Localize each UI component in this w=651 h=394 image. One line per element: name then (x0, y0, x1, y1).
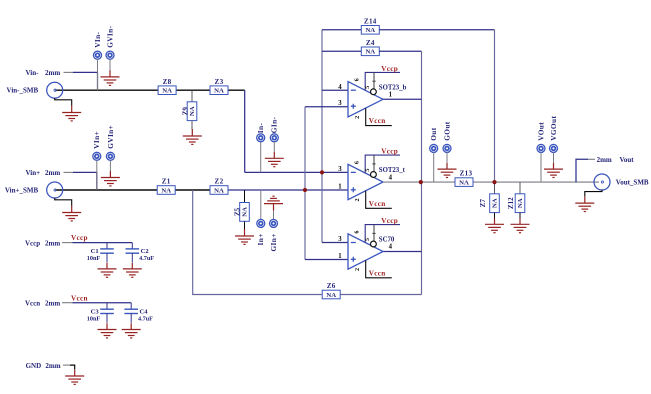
svg-text:2mm: 2mm (45, 169, 60, 177)
resistor Z4 (361, 39, 379, 56)
svg-text:VIn-: VIn- (93, 31, 102, 47)
wire GVIn- stem (109, 59, 111, 70)
wire node minus to op2 pin3 (245, 171, 348, 173)
svg-text:Vccn: Vccn (369, 200, 386, 208)
ground of Vin-_SMB (62, 106, 81, 121)
svg-text:Vout_SMB: Vout_SMB (616, 178, 649, 186)
wire Vin- 2mm stub (73, 72, 98, 90)
svg-text:5: 5 (364, 85, 371, 89)
wire op3 pin1 (305, 259, 348, 261)
resistor Z9 (181, 102, 197, 121)
ground of Z9 (183, 129, 202, 144)
wire Z4 drop bus (421, 51, 423, 294)
svg-text:3: 3 (338, 100, 342, 107)
wire C4 bottom stem (130, 314, 132, 323)
wire Z4 left (322, 50, 362, 52)
wire inverting bus x322 (321, 30, 323, 243)
wire Vin- 2mm lead (64, 71, 74, 73)
svg-text:2: 2 (354, 268, 361, 272)
svg-text:Vin+_SMB: Vin+_SMB (5, 186, 39, 194)
svg-text:Z3: Z3 (215, 78, 224, 86)
test point VGOut (550, 144, 558, 152)
resistor Z1 (157, 178, 175, 195)
svg-text:NA: NA (326, 292, 336, 299)
svg-text:Z2: Z2 (215, 178, 224, 186)
svg-text:GOut: GOut (442, 121, 451, 141)
connector Vin+_SMB (47, 182, 63, 198)
capacitor C1 (100, 249, 114, 253)
svg-text:Z6: Z6 (327, 282, 336, 290)
wire Z3 out (228, 89, 245, 91)
svg-text:Z12: Z12 (507, 197, 515, 209)
wire Z14 right (379, 29, 495, 31)
wire Z6 left leg (193, 190, 322, 295)
wire op1 pin4 (322, 89, 348, 91)
wire Vin+ 2mm stub (73, 172, 97, 190)
svg-text:C4: C4 (140, 308, 149, 315)
wire Out stem (433, 152, 435, 182)
wire C1 bottom stem (106, 253, 108, 262)
svg-text:Vccn: Vccn (71, 294, 88, 302)
svg-text:3: 3 (338, 166, 342, 173)
junction (419, 180, 423, 184)
svg-text:Z1: Z1 (162, 178, 171, 186)
wire op3 pin3 (322, 242, 348, 244)
svg-text:3: 3 (338, 236, 342, 243)
svg-text:2mm: 2mm (597, 156, 612, 164)
wire In+ stem (260, 190, 262, 219)
ground of C2 (123, 263, 142, 278)
wire C3 bottom stem (106, 314, 108, 323)
svg-text:GIn-: GIn- (270, 116, 279, 133)
ground of C4 (122, 323, 141, 338)
wire Vccp lead (62, 242, 73, 244)
test point VOut (537, 144, 545, 152)
wire GIn+ stem (273, 211, 275, 220)
svg-text:2mm: 2mm (45, 362, 60, 370)
svg-text:1: 1 (389, 92, 393, 99)
wire op1 pin3 (305, 106, 348, 108)
svg-text:VGOut: VGOut (549, 116, 558, 141)
svg-text:C2: C2 (141, 248, 150, 255)
svg-text:GND: GND (26, 362, 42, 370)
wire op2 output to Z13 (383, 181, 455, 183)
svg-text:NA: NA (162, 88, 172, 95)
svg-text:Vout: Vout (620, 156, 635, 164)
svg-text:Vccp: Vccp (381, 148, 398, 156)
resistor Z3 (210, 78, 228, 95)
ground of Z5 (235, 229, 254, 244)
wire VIn- stem (97, 59, 99, 90)
wire VIn+ stem (96, 160, 98, 190)
wire Z1 to Z2 (174, 189, 210, 191)
wire Z9 bottom stem (191, 121, 193, 130)
svg-text:Vccp: Vccp (25, 239, 40, 247)
resistor Z12 (507, 194, 525, 213)
wire Z5 bottom stem (244, 222, 246, 230)
svg-text:10nF: 10nF (87, 316, 101, 323)
svg-text:Vccp: Vccp (381, 65, 398, 73)
wire op3 output (383, 251, 422, 253)
capacitor C3 (100, 309, 114, 313)
svg-text:NA: NA (214, 187, 224, 194)
test point GVIn- (106, 51, 114, 59)
svg-text:Z13: Z13 (460, 170, 473, 178)
op-amp SOT23_t (348, 155, 400, 208)
wire GIn- stem (273, 142, 275, 152)
wire Z5 top stem (244, 190, 246, 203)
svg-text:Vccp: Vccp (381, 217, 398, 225)
svg-text:Vin-_SMB: Vin-_SMB (7, 87, 39, 95)
svg-text:GVIn+: GVIn+ (106, 125, 115, 149)
wire C3 top stem (106, 303, 108, 310)
wire Vout 2mm stub (576, 159, 588, 182)
resistor Z2 (210, 178, 228, 195)
svg-text:C1: C1 (91, 248, 99, 255)
ground of GIn- (265, 152, 284, 167)
wire C2 bottom stem (131, 253, 133, 262)
svg-text:Out: Out (429, 127, 438, 141)
test point GVIn+ (106, 152, 114, 160)
wire SMB1 ground stub (55, 98, 72, 106)
svg-text:2: 2 (354, 115, 361, 119)
svg-text:Vccp: Vccp (71, 234, 88, 242)
svg-text:10nF: 10nF (87, 255, 101, 262)
svg-text:NA: NA (365, 27, 375, 34)
junction (303, 188, 307, 192)
svg-text:NA: NA (161, 187, 171, 194)
svg-text:Z5: Z5 (234, 207, 242, 216)
ground of Vin+_SMB (62, 206, 81, 221)
svg-text:2mm: 2mm (45, 299, 60, 307)
test point GIn+ (270, 219, 278, 227)
ground of Vout_SMB (575, 197, 594, 212)
capacitor C4 (124, 309, 138, 313)
wire Z9 top stem (191, 90, 193, 102)
wire Z14 left (322, 29, 362, 31)
wire noninverting bus x305 (304, 107, 306, 260)
svg-text:Z8: Z8 (163, 78, 172, 86)
svg-text:5: 5 (364, 168, 371, 172)
svg-text:NA: NA (459, 179, 469, 186)
svg-text:1: 1 (338, 253, 342, 260)
wire Z7 ground stem (494, 213, 496, 219)
svg-text:SC70: SC70 (379, 237, 395, 244)
resistor Z8 (158, 78, 176, 95)
junction (492, 180, 496, 184)
svg-text:C3: C3 (91, 308, 100, 315)
ground of GVIn+ (101, 171, 120, 186)
wire op1 output (383, 98, 422, 100)
svg-text:Z7: Z7 (479, 199, 487, 208)
wire Z7 stem (494, 182, 496, 193)
svg-text:NA: NA (214, 88, 224, 95)
resistor Z7 (479, 194, 499, 213)
wire Vin- SMB to Z8 (55, 89, 158, 91)
svg-text:4.7uF: 4.7uF (138, 316, 153, 323)
ground of GIn+ (264, 196, 283, 210)
svg-text:4: 4 (338, 84, 342, 91)
wire Z13 to Vout_SMB (473, 181, 599, 183)
ground of Z12 (511, 219, 530, 233)
svg-text:NA: NA (242, 207, 249, 217)
svg-text:In-: In- (256, 123, 265, 134)
wire VGOut stem (553, 152, 555, 162)
svg-text:NA: NA (517, 198, 524, 208)
ground of GVIn- (101, 70, 120, 85)
wire SMB2 ground stub (55, 198, 72, 206)
wire C1 top stem (106, 243, 108, 249)
svg-text:4: 4 (389, 174, 393, 181)
ground of VGOut (544, 163, 563, 178)
op-amp SC70 (348, 225, 400, 278)
op-amp SOT23_b (348, 72, 400, 125)
wire VOut stem (540, 152, 542, 182)
test point VIn- (94, 51, 102, 59)
wire Z8 to Z3 (175, 89, 210, 91)
wire Vccp rail (73, 242, 133, 244)
wire Vin+ 2mm lead (64, 171, 74, 173)
svg-text:VIn+: VIn+ (92, 131, 101, 149)
svg-text:GVIn-: GVIn- (105, 25, 114, 47)
wire Vccn lead (62, 302, 73, 304)
ground of C1 (98, 263, 117, 278)
ground of C3 (98, 323, 117, 338)
wire Z14 drop (494, 30, 496, 182)
svg-text:5: 5 (364, 238, 371, 242)
svg-text:NA: NA (492, 198, 499, 208)
test point GIn- (270, 134, 278, 142)
wire GND stub (70, 365, 75, 369)
capacitor C2 (126, 249, 140, 253)
wire GVIn+ stem (109, 160, 111, 171)
resistor Z13 (455, 178, 473, 187)
wire Z12 ground stem (519, 213, 521, 219)
svg-text:GIn+: GIn+ (269, 233, 278, 251)
wire Vccn rail (73, 302, 132, 304)
svg-text:SOT23_t: SOT23_t (379, 167, 406, 174)
resistor Z5 (234, 203, 250, 222)
svg-text:6: 6 (354, 78, 361, 82)
svg-text:Vccn: Vccn (369, 117, 386, 125)
svg-text:6: 6 (354, 230, 361, 234)
wire GOut stem (446, 152, 448, 162)
svg-text:In+: In+ (256, 233, 265, 245)
svg-text:VOut: VOut (536, 122, 545, 141)
svg-text:SOT23_b: SOT23_b (379, 85, 407, 92)
svg-text:Vin-: Vin- (26, 69, 40, 77)
wire C4 top stem (130, 303, 132, 310)
ground of GOut (438, 163, 457, 178)
test point In- (257, 134, 265, 142)
svg-text:4.7uF: 4.7uF (139, 255, 154, 262)
wire Vout SMB ground stub (585, 190, 602, 197)
connector Vout_SMB (594, 174, 610, 190)
svg-text:Z4: Z4 (366, 39, 375, 47)
svg-text:2: 2 (354, 198, 361, 202)
resistor Z14 (361, 17, 379, 34)
wire GND lead (63, 364, 70, 366)
svg-text:Vccn: Vccn (25, 299, 40, 307)
svg-text:2mm: 2mm (45, 239, 60, 247)
junction (320, 170, 324, 174)
svg-text:1: 1 (338, 184, 342, 191)
wire Vin+ SMB to Z1 (55, 189, 158, 191)
connector Vin-_SMB (47, 82, 63, 98)
ground of GND (65, 370, 84, 385)
svg-text:4: 4 (389, 244, 393, 251)
svg-text:NA: NA (189, 106, 196, 116)
wire Z2 to op2 pin1 (228, 189, 348, 191)
test point VIn+ (93, 152, 101, 160)
wire Z3 to node minus (244, 90, 246, 172)
wire Z12 stem (519, 182, 521, 193)
resistor Z6 (322, 282, 340, 299)
test point GOut (443, 144, 451, 152)
wire In- stem (260, 142, 262, 173)
svg-text:6: 6 (354, 161, 361, 165)
svg-text:Z14: Z14 (364, 17, 377, 25)
svg-text:NA: NA (365, 49, 375, 56)
svg-text:2mm: 2mm (45, 69, 60, 77)
test point Out (430, 144, 438, 152)
test point In+ (257, 219, 265, 227)
svg-text:Vccn: Vccn (369, 269, 386, 277)
svg-text:Z9: Z9 (181, 107, 189, 116)
wire Z6 right leg (340, 294, 421, 296)
ground of Z7 (485, 219, 504, 233)
wire C2 top stem (131, 243, 133, 249)
svg-text:Vin+: Vin+ (26, 169, 41, 177)
wire Z4 right (379, 50, 422, 52)
wire Vout 2mm lead (588, 158, 595, 160)
